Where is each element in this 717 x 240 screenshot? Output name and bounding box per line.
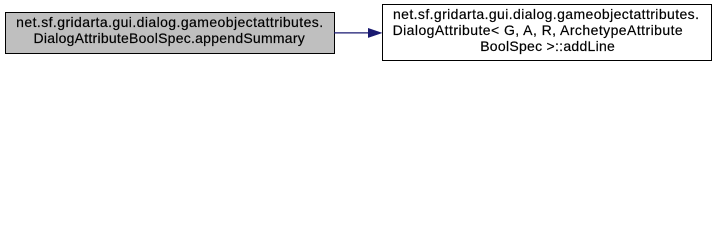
call edge arrow (midnightblue) from N1 to N2: [334, 26, 383, 40]
node N2: net.sf.gridarta.gui.dialog.gameobjectattributes.DialogAttribute&lt; G, A, R, ArchetypeAttribute BoolSpec &gt;::addLine (white fill): [382, 4, 712, 61]
node N1: net.sf.gridarta.gui.dialog.gameobjectattributes.DialogAttributeBoolSpec.appendSummary (current node, grey fill): [5, 12, 336, 54]
wire: edge line: [334, 32, 369, 34]
arrowhead: [368, 28, 381, 37]
